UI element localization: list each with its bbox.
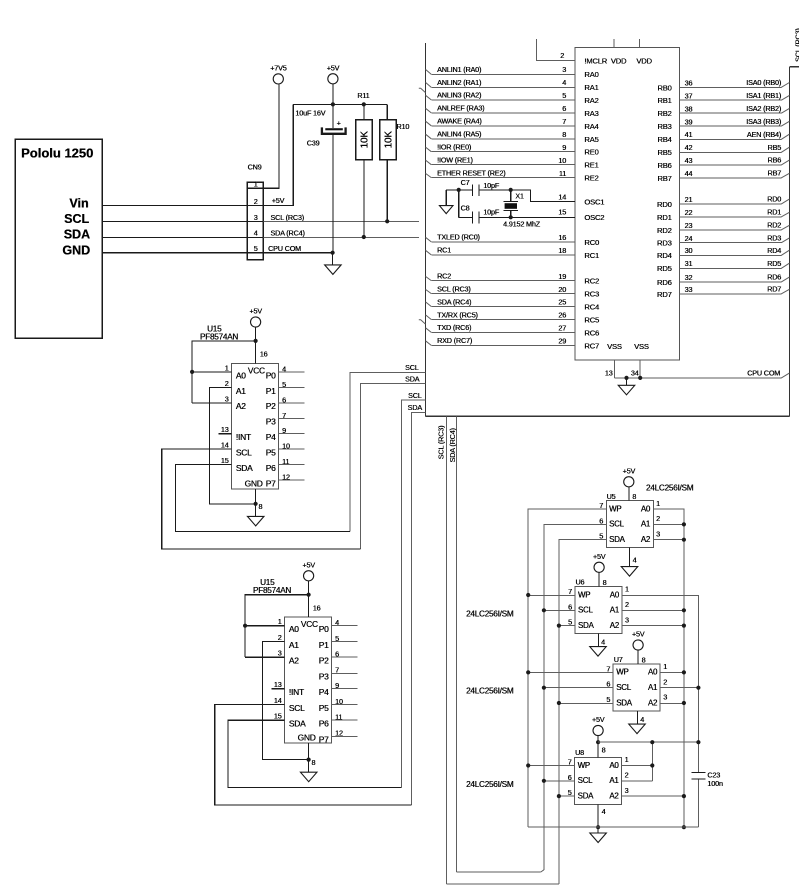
svg-text:P3: P3 bbox=[319, 671, 329, 681]
junction X1 bottom bbox=[509, 215, 513, 219]
svg-text:8: 8 bbox=[562, 130, 566, 139]
wire VSS to CPU COM bbox=[614, 377, 781, 379]
pin VDD stub 2 bbox=[639, 39, 641, 48]
pin 29 RC7 wire + net RXD (RC7) bbox=[431, 344, 575, 346]
U8 wire +5V to A-rail2 bbox=[598, 741, 698, 743]
U8 gnd junction bbox=[596, 825, 600, 829]
svg-text:3: 3 bbox=[625, 615, 629, 624]
svg-text:A1: A1 bbox=[609, 776, 618, 785]
svg-text:RD6: RD6 bbox=[657, 278, 672, 287]
U15#2 wire A2 bbox=[245, 656, 284, 658]
svg-text:SCL (RC3): SCL (RC3) bbox=[270, 213, 304, 222]
pin 4 RA1 wire + net ANLIN2 (RA1) bbox=[431, 86, 575, 88]
svg-text:4: 4 bbox=[601, 638, 605, 647]
svg-text:1: 1 bbox=[625, 585, 629, 594]
svg-text:GND: GND bbox=[62, 243, 90, 257]
svg-text:+5V: +5V bbox=[632, 630, 645, 639]
svg-text:A2: A2 bbox=[289, 656, 299, 666]
U5 power +5V bbox=[624, 477, 634, 487]
svg-text:8: 8 bbox=[258, 502, 262, 511]
svg-text:2: 2 bbox=[625, 771, 629, 780]
svg-text:A2: A2 bbox=[236, 401, 246, 411]
svg-text:SCL: SCL bbox=[616, 683, 632, 692]
svg-text:RD3: RD3 bbox=[767, 234, 781, 243]
svg-text:SCL (RC3): SCL (RC3) bbox=[437, 284, 471, 293]
pin 8 RA5 wire + net ANLIN4 (RA5) bbox=[431, 138, 575, 140]
U15#2 pin 8 GND bbox=[308, 743, 310, 772]
svg-text:21: 21 bbox=[685, 195, 693, 204]
pin 18 RC1 wire + net RC1 bbox=[431, 254, 575, 256]
ground crystal caps bbox=[445, 190, 447, 206]
resistor R10 10K bbox=[380, 120, 397, 160]
U15#2 pin 16 VCC bbox=[308, 581, 310, 617]
svg-text:1: 1 bbox=[656, 499, 660, 508]
svg-text:4: 4 bbox=[562, 78, 566, 87]
junction pin 34 bbox=[638, 376, 642, 380]
U15#1 pin 12 P7 bbox=[279, 479, 305, 481]
svg-text:CPU COM: CPU COM bbox=[747, 369, 780, 378]
svg-text:A1: A1 bbox=[289, 640, 299, 650]
pin 5 RA2 wire + net ANLIN3 (RA2) bbox=[431, 99, 575, 101]
svg-text:7: 7 bbox=[335, 665, 339, 674]
U15#2 pin 6 P2 bbox=[332, 656, 358, 658]
svg-text:SCL: SCL bbox=[289, 703, 305, 713]
bus bottom horizontal bbox=[426, 415, 790, 417]
svg-text:ANLIN3 (RA2): ANLIN3 (RA2) bbox=[437, 91, 481, 100]
svg-text:1: 1 bbox=[663, 662, 667, 671]
svg-text:2: 2 bbox=[625, 600, 629, 609]
svg-text:RD1: RD1 bbox=[657, 213, 672, 222]
svg-text:SCL: SCL bbox=[578, 776, 594, 785]
svg-text:3: 3 bbox=[562, 65, 566, 74]
svg-text:34: 34 bbox=[631, 369, 639, 378]
svg-text:C8: C8 bbox=[461, 203, 470, 212]
svg-text:AEN (RB4): AEN (RB4) bbox=[747, 130, 781, 139]
svg-text:30: 30 bbox=[685, 246, 693, 255]
U15#1 VCC junction bbox=[254, 339, 258, 343]
svg-text:VCC: VCC bbox=[248, 365, 265, 375]
vertical net SDA (RC4) from bus bbox=[455, 416, 457, 872]
U6 pin 4 GND bbox=[597, 634, 599, 647]
svg-text:11: 11 bbox=[335, 713, 342, 722]
svg-text:C23: C23 bbox=[707, 770, 720, 779]
svg-text:ISA2 (RB2): ISA2 (RB2) bbox=[746, 104, 781, 113]
svg-text:10K: 10K bbox=[383, 131, 394, 149]
svg-text:38: 38 bbox=[685, 104, 693, 113]
U8 ground bbox=[590, 833, 607, 843]
svg-text:OSC2: OSC2 bbox=[584, 213, 604, 222]
svg-text:P6: P6 bbox=[266, 463, 276, 473]
svg-text:!IOW (RE1): !IOW (RE1) bbox=[437, 156, 473, 165]
U15#2 pin 12 P7 bbox=[332, 735, 358, 737]
svg-text:9: 9 bbox=[562, 143, 566, 152]
svg-text:P1: P1 bbox=[319, 640, 329, 650]
svg-text:ISA0 (RB0): ISA0 (RB0) bbox=[746, 78, 781, 87]
svg-text:A1: A1 bbox=[610, 606, 619, 615]
svg-text:SDA: SDA bbox=[405, 374, 420, 383]
svg-text:RC1: RC1 bbox=[437, 246, 451, 255]
U6 wire A0 to +5V rail bbox=[622, 595, 699, 772]
svg-text:ISA1 (RB1): ISA1 (RB1) bbox=[746, 91, 781, 100]
pin !MCLR wire pin 2 bbox=[537, 39, 576, 61]
U15#1 wire SDA pin15 routing bbox=[175, 465, 350, 532]
U5 wire SCL to rail bbox=[544, 524, 606, 869]
U15#1 junction A0 bbox=[190, 370, 194, 374]
U5 wire A1 bbox=[653, 523, 684, 525]
pin 43 RB6 wire + net RB6 bbox=[680, 164, 782, 166]
svg-text:RB7: RB7 bbox=[767, 169, 781, 178]
U7 wire SDA bbox=[559, 702, 613, 704]
svg-text:7: 7 bbox=[568, 587, 572, 596]
svg-text:3: 3 bbox=[278, 649, 282, 658]
svg-text:RB2: RB2 bbox=[657, 109, 671, 118]
svg-text:P4: P4 bbox=[266, 432, 276, 442]
svg-text:RC3: RC3 bbox=[584, 290, 599, 299]
svg-text:41: 41 bbox=[685, 130, 693, 139]
svg-text:15: 15 bbox=[274, 712, 282, 721]
svg-text:P5: P5 bbox=[266, 448, 276, 458]
svg-text:9: 9 bbox=[335, 681, 339, 690]
svg-text:RB7: RB7 bbox=[657, 174, 671, 183]
U15#1 wire VCC to A0/A2 bbox=[192, 341, 256, 403]
svg-text:ETHER RESET (RE2): ETHER RESET (RE2) bbox=[437, 168, 505, 177]
U5 wire A0 to gnd rail bbox=[653, 509, 684, 827]
svg-text:+5V: +5V bbox=[249, 307, 262, 316]
U15#1 wire A1 to GND bbox=[209, 387, 255, 503]
U7 pin 4 GND bbox=[636, 711, 638, 724]
CN9 pin 5 bbox=[247, 252, 263, 254]
svg-text:RA4: RA4 bbox=[584, 122, 598, 131]
IC U-PIC 44-pin box bbox=[575, 48, 680, 360]
svg-text:2: 2 bbox=[225, 379, 229, 388]
junction X1 top bbox=[509, 188, 513, 192]
svg-text:RD6: RD6 bbox=[767, 273, 781, 282]
svg-text:RA1: RA1 bbox=[584, 83, 598, 92]
wire SDA #1 from bus bbox=[360, 384, 425, 549]
svg-text:SCL: SCL bbox=[236, 448, 252, 458]
svg-text:A2: A2 bbox=[609, 791, 618, 800]
svg-text:A0: A0 bbox=[648, 668, 658, 677]
wire gnd to C7 bbox=[446, 189, 472, 191]
U5 pin 8 VCC bbox=[628, 487, 630, 501]
svg-text:A0: A0 bbox=[609, 761, 619, 770]
capacitor C7 10pF bbox=[471, 184, 473, 196]
svg-text:+7V5: +7V5 bbox=[270, 64, 287, 73]
svg-text:AWAKE (RA4): AWAKE (RA4) bbox=[437, 117, 482, 126]
svg-text:7: 7 bbox=[562, 117, 566, 126]
svg-text:10: 10 bbox=[282, 442, 290, 451]
svg-text:4: 4 bbox=[335, 618, 339, 627]
U15#2 wire A0 bbox=[245, 625, 284, 627]
svg-text:RC6: RC6 bbox=[584, 328, 599, 337]
svg-text:RB4: RB4 bbox=[657, 135, 671, 144]
U15#2 wire SDA pin15 routing bbox=[228, 720, 402, 787]
svg-text:C39: C39 bbox=[307, 139, 320, 148]
svg-text:24LC256I/SM: 24LC256I/SM bbox=[646, 484, 694, 493]
junction R11 to SDA bbox=[362, 235, 366, 239]
pin 38 RB2 wire + net ISA2 (RB2) bbox=[680, 112, 782, 114]
svg-text:WP: WP bbox=[578, 590, 590, 599]
U7 pin 8 VCC bbox=[637, 650, 639, 664]
svg-text:P4: P4 bbox=[319, 687, 329, 697]
svg-text:2: 2 bbox=[560, 51, 564, 60]
pin 24 RD3 wire + net RD3 bbox=[680, 242, 782, 244]
IC U15 PF8574AN #2 box bbox=[285, 617, 332, 743]
svg-text:R10: R10 bbox=[396, 122, 409, 131]
svg-text:16: 16 bbox=[313, 603, 321, 612]
pin 19 RC2 wire + net RC2 bbox=[431, 280, 575, 282]
wire SCL #2 from bus bbox=[402, 400, 426, 787]
CN9 pin 1 bbox=[247, 187, 263, 189]
svg-text:+5V: +5V bbox=[302, 561, 315, 570]
svg-text:RD4: RD4 bbox=[657, 251, 672, 260]
svg-text:1: 1 bbox=[278, 617, 282, 626]
pin 33 RD7 wire + net RD7 bbox=[680, 293, 782, 295]
svg-text:6: 6 bbox=[282, 395, 286, 404]
U15#1 pin 6 P2 bbox=[279, 402, 305, 404]
svg-text:RA3: RA3 bbox=[584, 109, 598, 118]
svg-text:RC2: RC2 bbox=[584, 277, 599, 286]
svg-text:+5V: +5V bbox=[623, 467, 636, 476]
svg-text:P2: P2 bbox=[266, 401, 276, 411]
svg-text:22: 22 bbox=[685, 208, 693, 217]
U5 pin 4 GND bbox=[629, 548, 631, 567]
svg-text:A2: A2 bbox=[610, 621, 619, 630]
svg-text:14: 14 bbox=[558, 192, 566, 201]
U8 wire SDA bbox=[559, 795, 575, 797]
wire SCL #1 from bus bbox=[350, 372, 426, 531]
svg-text:SDA: SDA bbox=[578, 791, 595, 800]
svg-text:!MCLR: !MCLR bbox=[584, 56, 607, 65]
svg-text:TXLED (RC0): TXLED (RC0) bbox=[437, 233, 480, 242]
svg-text:+5V: +5V bbox=[327, 64, 340, 73]
svg-text:RD7: RD7 bbox=[767, 285, 781, 294]
svg-text:SCL (RC3): SCL (RC3) bbox=[437, 426, 446, 460]
svg-text:16: 16 bbox=[260, 350, 268, 359]
svg-text:3: 3 bbox=[225, 394, 229, 403]
svg-text:RB1: RB1 bbox=[657, 96, 671, 105]
svg-text:P0: P0 bbox=[266, 370, 276, 380]
svg-text:15: 15 bbox=[558, 208, 566, 217]
svg-text:8: 8 bbox=[602, 746, 606, 755]
svg-text:VDD: VDD bbox=[636, 56, 652, 65]
svg-text:RB0: RB0 bbox=[657, 83, 671, 92]
U6 wire SDA bbox=[559, 625, 575, 627]
capacitor C23 100n bbox=[691, 771, 705, 773]
U15#2 junction A0 bbox=[243, 624, 247, 628]
U15#2 pin 11 P6 bbox=[332, 719, 358, 721]
wire +5V drop bbox=[332, 84, 334, 105]
svg-text:23: 23 bbox=[685, 221, 693, 230]
svg-text:11: 11 bbox=[282, 457, 289, 466]
U7 ground bbox=[629, 724, 646, 734]
svg-text:RD2: RD2 bbox=[767, 221, 781, 230]
svg-text:P5: P5 bbox=[319, 703, 329, 713]
svg-text:ANLIN1 (RA0): ANLIN1 (RA0) bbox=[437, 65, 481, 74]
U15#1 pin 10 P5 bbox=[279, 448, 305, 450]
svg-text:14: 14 bbox=[221, 441, 229, 450]
svg-text:P0: P0 bbox=[319, 624, 329, 634]
svg-text:SCL (RC3): SCL (RC3) bbox=[793, 28, 799, 62]
svg-text:RB6: RB6 bbox=[767, 156, 781, 165]
svg-text:14: 14 bbox=[274, 696, 282, 705]
pin 3 RA0 wire + net ANLIN1 (RA0) bbox=[431, 73, 575, 75]
junction gnd tap bbox=[624, 376, 628, 380]
U15#1 pin 7 P3 bbox=[279, 417, 305, 419]
svg-text:C7: C7 bbox=[461, 178, 470, 187]
pin 23 RD2 wire + net RD2 bbox=[680, 229, 782, 231]
bus right vertical bbox=[788, 67, 790, 417]
wire SDA (RC4) from CN9 pin4 bbox=[263, 236, 419, 238]
pin 9 RE0 wire + net !IOR (RE0) bbox=[431, 151, 575, 153]
svg-text:SDA: SDA bbox=[289, 719, 306, 729]
wire CPU COM from CN9 pin5 bbox=[263, 252, 332, 254]
svg-text:43: 43 bbox=[685, 156, 693, 165]
U15#2 wire SCL pin14 routing bbox=[215, 704, 412, 804]
svg-text:8: 8 bbox=[632, 492, 636, 501]
pin 39 RB3 wire + net ISA3 (RB3) bbox=[680, 125, 782, 127]
svg-text:WP: WP bbox=[616, 668, 628, 677]
svg-text:RD7: RD7 bbox=[657, 290, 672, 299]
pin 21 RD0 wire + net RD0 bbox=[680, 203, 782, 205]
U15#2 pin 7 P3 bbox=[332, 672, 358, 674]
svg-text:13: 13 bbox=[605, 369, 613, 378]
svg-text:RA0: RA0 bbox=[584, 70, 598, 79]
U7 wire A2 bbox=[660, 702, 684, 704]
U15#2 pin 5 P1 bbox=[332, 640, 358, 642]
svg-text:SCL: SCL bbox=[64, 212, 89, 226]
svg-text:4: 4 bbox=[640, 715, 644, 724]
svg-text:RD0: RD0 bbox=[657, 200, 672, 209]
svg-text:RD0: RD0 bbox=[767, 195, 781, 204]
resistor R11 10K bbox=[356, 120, 373, 160]
svg-text:3: 3 bbox=[663, 693, 667, 702]
U8 pin 4 GND bbox=[597, 804, 599, 833]
junction +5V at C39 bbox=[331, 102, 335, 106]
wire +5V horizontal rail bbox=[293, 103, 387, 105]
capacitor C39 10uF 16V bbox=[332, 104, 334, 128]
svg-text:29: 29 bbox=[558, 337, 566, 346]
bus left vertical bbox=[425, 43, 427, 417]
svg-text:10pF: 10pF bbox=[483, 181, 500, 190]
svg-text:+5V: +5V bbox=[592, 715, 605, 724]
svg-text:1: 1 bbox=[254, 180, 258, 189]
svg-text:SDA: SDA bbox=[236, 463, 253, 473]
svg-text:A0: A0 bbox=[610, 590, 620, 599]
bus top right to edge bbox=[789, 66, 799, 68]
svg-text:10uF 16V: 10uF 16V bbox=[295, 109, 325, 118]
pin 10 RE1 wire + net !IOW (RE1) bbox=[431, 164, 575, 166]
svg-text:RB5: RB5 bbox=[657, 148, 671, 157]
svg-text:SDA: SDA bbox=[578, 621, 595, 630]
svg-text:RC4: RC4 bbox=[584, 303, 599, 312]
svg-text:33: 33 bbox=[685, 285, 693, 294]
power +7V5 bbox=[273, 74, 283, 84]
U15#1 pin 16 VCC bbox=[255, 327, 257, 363]
svg-text:3: 3 bbox=[656, 529, 660, 538]
IC U6 24LC256 box bbox=[575, 587, 622, 634]
svg-text:6: 6 bbox=[335, 650, 339, 659]
CN9 pin 2 bbox=[247, 204, 263, 206]
rail +5V/C23 lower bbox=[697, 779, 699, 827]
svg-text:RD3: RD3 bbox=[657, 239, 672, 248]
svg-text:11: 11 bbox=[559, 169, 566, 178]
svg-text:SDA (RC4): SDA (RC4) bbox=[270, 228, 304, 237]
svg-text:7: 7 bbox=[282, 411, 286, 420]
svg-text:10: 10 bbox=[558, 156, 566, 165]
svg-text:WP: WP bbox=[578, 761, 590, 770]
wire Vin to CN9 pin2 bbox=[102, 204, 247, 206]
svg-text:4: 4 bbox=[602, 807, 606, 816]
svg-text:WP: WP bbox=[609, 504, 621, 513]
svg-text:RD1: RD1 bbox=[767, 208, 781, 217]
U6 power +5V bbox=[594, 562, 604, 572]
U6 pin 8 VCC bbox=[598, 572, 600, 586]
svg-text:VSS: VSS bbox=[607, 342, 622, 351]
wire C8 to OSC2 pin 15 bbox=[479, 216, 575, 218]
svg-text:13: 13 bbox=[274, 680, 282, 689]
U8 wire A2 bbox=[622, 795, 684, 797]
IC U7 24LC256 box bbox=[613, 664, 660, 711]
svg-text:42: 42 bbox=[685, 143, 693, 152]
U5 ground bbox=[621, 567, 638, 577]
pin 41 RB4 wire + net AEN (RB4) bbox=[680, 138, 782, 140]
svg-text:RD4: RD4 bbox=[767, 246, 781, 255]
svg-text:3: 3 bbox=[625, 786, 629, 795]
svg-text:A2: A2 bbox=[641, 535, 650, 544]
svg-text:GND: GND bbox=[298, 732, 316, 742]
pin 44 RB7 wire + net RB7 bbox=[680, 177, 782, 179]
svg-text:!IOR (RE0): !IOR (RE0) bbox=[437, 143, 471, 152]
U15#2 VCC junction bbox=[307, 593, 311, 597]
svg-text:27: 27 bbox=[558, 324, 566, 333]
pin 6 RA3 wire + net ANLREF (RA3) bbox=[431, 112, 575, 114]
svg-text:SDA (RC4): SDA (RC4) bbox=[448, 428, 457, 462]
svg-text:+5V: +5V bbox=[272, 196, 285, 205]
pin 20 RC3 wire + net SCL (RC3) bbox=[431, 293, 575, 295]
svg-text:VDD: VDD bbox=[611, 56, 627, 65]
svg-text:RA5: RA5 bbox=[584, 135, 598, 144]
svg-text:8: 8 bbox=[311, 758, 315, 767]
U15#1 power +5V bbox=[251, 317, 261, 327]
svg-text:SDA: SDA bbox=[408, 403, 423, 412]
rail A-GND vertical bbox=[682, 825, 686, 829]
U5 wire WP to rail bbox=[528, 509, 606, 827]
U6 wire A1 bbox=[622, 609, 684, 611]
svg-text:4: 4 bbox=[254, 229, 258, 238]
svg-text:SCL: SCL bbox=[578, 606, 594, 615]
svg-text:RD5: RD5 bbox=[767, 259, 781, 268]
connector CN9 bbox=[247, 182, 263, 260]
wire SCL (RC3) from CN9 pin3 bbox=[263, 220, 419, 222]
svg-text:SDA: SDA bbox=[616, 698, 633, 707]
svg-text:A2: A2 bbox=[648, 698, 657, 707]
svg-text:TXD (RC6): TXD (RC6) bbox=[437, 323, 471, 332]
pin 7 RA4 wire + net AWAKE (RA4) bbox=[431, 125, 575, 127]
svg-text:!INT: !INT bbox=[289, 687, 304, 697]
svg-text:24LC256I/SM: 24LC256I/SM bbox=[466, 780, 514, 789]
crystal X1 4.9152 MhZ bbox=[510, 190, 512, 201]
CN9 pin 4 bbox=[247, 236, 263, 238]
svg-text:P1: P1 bbox=[266, 386, 276, 396]
U15#1 stub !INT bbox=[219, 433, 232, 435]
U15#1 pin 8 GND bbox=[255, 489, 257, 516]
svg-text:RC0: RC0 bbox=[584, 238, 599, 247]
power +5V bbox=[328, 74, 338, 84]
svg-text:2: 2 bbox=[663, 677, 667, 686]
U15#1 wire SCL pin14 routing bbox=[162, 449, 361, 549]
svg-text:4: 4 bbox=[633, 556, 637, 565]
